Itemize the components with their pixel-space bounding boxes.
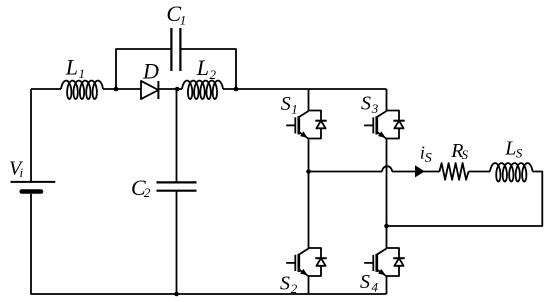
svg-text:S: S [425,151,432,166]
svg-text:S: S [281,93,291,115]
svg-text:S: S [361,93,371,115]
svg-text:2: 2 [210,67,217,82]
svg-text:D: D [142,59,159,84]
svg-text:S: S [280,273,290,295]
svg-text:S: S [462,147,469,162]
svg-text:L: L [504,138,516,160]
svg-text:1: 1 [180,12,187,27]
svg-text:1: 1 [291,102,298,117]
svg-text:1: 1 [79,66,86,81]
svg-text:3: 3 [371,101,379,116]
svg-text:L: L [196,55,209,80]
svg-text:4: 4 [372,279,379,294]
svg-text:2: 2 [291,281,298,296]
svg-text:S: S [516,146,523,161]
svg-text:i: i [20,165,24,180]
svg-text:L: L [65,54,78,79]
svg-text:2: 2 [144,185,151,200]
svg-text:S: S [360,271,370,293]
